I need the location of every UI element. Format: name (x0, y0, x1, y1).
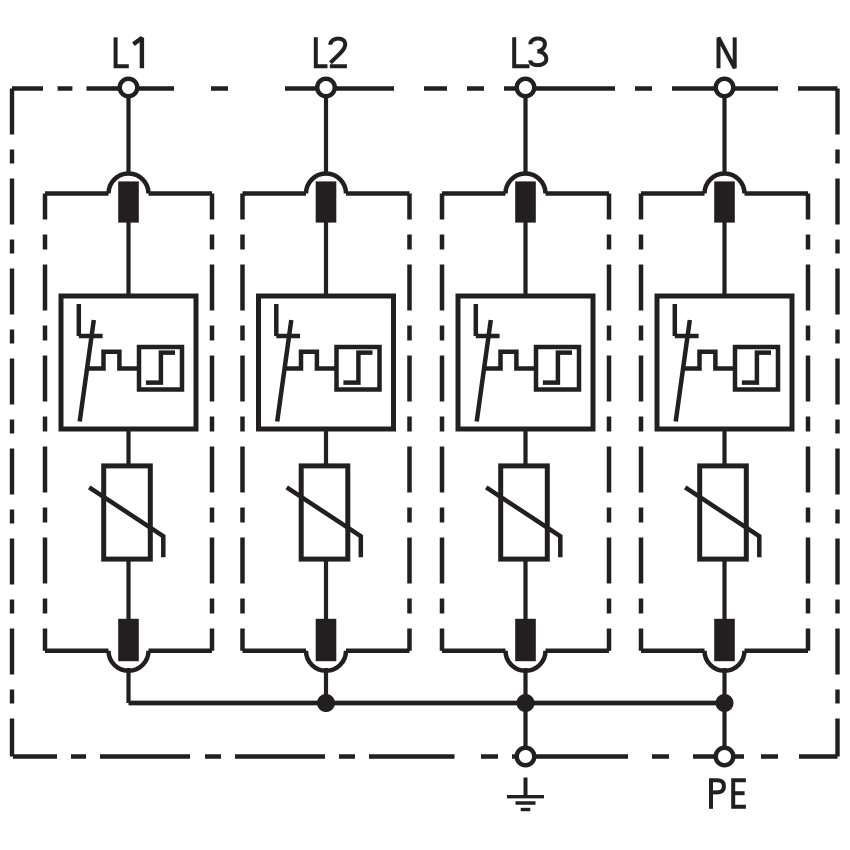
wire varistor to bottom contact (L2) (324, 558, 328, 620)
disconnector switch upper lead (L2) (274, 304, 279, 336)
wire disconnector to varistor (L1) (126, 429, 130, 467)
plug-in contact bottom (L2 branch): contact blade (316, 619, 337, 661)
plug-in contact top (L1 branch): contact blade (118, 181, 139, 222)
label L2 (316, 37, 347, 66)
enclosure bottom edge right segment (N) (745, 649, 809, 654)
wire contact to PE bus (L1) (126, 668, 130, 703)
enclosure bottom edge left segment (L3) (442, 649, 506, 654)
wire bus to ground terminal (523, 703, 527, 747)
device outer enclosure chain-dashed border: left edge (10, 89, 14, 757)
plug-in contact top (L1 branch): arc (109, 174, 149, 194)
varistor body (L1 branch) (104, 466, 151, 559)
PE terminal circle (716, 748, 734, 766)
disconnector switch upper lead (L1) (77, 304, 82, 336)
enclosure top edge right segment (L3) (546, 191, 610, 196)
module enclosure dashed right edge (L2) (407, 194, 412, 651)
plug-in contact bottom (L3 branch): arc (506, 651, 546, 671)
wire contact to disconnector (N) (722, 222, 726, 298)
thermal disconnector box (L2 branch) (259, 296, 394, 429)
plug-in contact bottom (N branch): contact blade (714, 619, 735, 661)
disconnector switch blade (N) (676, 320, 690, 422)
module enclosure dashed right edge (L1) (210, 194, 215, 651)
plug-in contact top (N branch): arc (705, 174, 745, 194)
plug-in contact top (L2 branch): contact blade (316, 181, 337, 222)
wire contact to PE bus (L3) (523, 668, 527, 703)
surge step symbol (L1) (146, 353, 175, 383)
enclosure top edge right segment (L2) (346, 191, 410, 196)
thermal disconnector box (L1 branch) (61, 296, 196, 429)
wire varistor to bottom contact (L3) (523, 558, 527, 620)
wire contact to disconnector (L2) (324, 222, 328, 298)
wire varistor to bottom contact (L1) (126, 558, 130, 620)
disconnector switch upper lead (N) (673, 304, 678, 336)
surge step symbol (L2) (343, 353, 372, 383)
thermal disconnector box (L3 branch) (458, 296, 593, 429)
varistor diagonal stroke (L3) (486, 487, 560, 557)
plug-in contact top (L2 branch): arc (306, 174, 346, 194)
thermal trip linkage square-wave (L1) (87, 352, 141, 369)
disconnector switch blade (L3) (477, 320, 491, 422)
varistor body (N branch) (700, 466, 747, 559)
disconnector switch upper lead (L3) (474, 304, 479, 336)
module enclosure dashed right edge (L3) (607, 194, 612, 651)
enclosure bottom edge right segment (L1) (149, 649, 213, 654)
disconnector switch contact tick (L2) (276, 334, 300, 339)
disconnector switch contact tick (L3) (476, 334, 500, 339)
enclosure top edge left segment (L1) (45, 191, 109, 196)
earth/ground symbol: bar 1 (507, 795, 544, 798)
device outer enclosure chain-dashed border: bottom edge (13, 754, 838, 758)
surge event box (L1) (139, 347, 182, 390)
device outer enclosure chain-dashed border: right edge (835, 89, 839, 757)
wire contact to disconnector (L3) (523, 222, 527, 298)
disconnector switch blade (L2) (277, 320, 291, 422)
wire varistor to bottom contact (N) (722, 558, 726, 620)
disconnector switch contact tick (N) (675, 334, 699, 339)
enclosure top edge left segment (L3) (442, 191, 506, 196)
terminal circle L1 (120, 79, 138, 97)
wire contact to disconnector (L1) (126, 222, 130, 298)
terminal circle L2 (317, 79, 335, 97)
wire contact to PE bus (N) (722, 668, 726, 703)
thermal trip linkage square-wave (L3) (484, 352, 538, 369)
module enclosure dashed left edge (L3) (440, 194, 445, 651)
surge event box (L2) (337, 347, 380, 390)
junction node L2/bus (317, 694, 335, 712)
surge step symbol (N) (742, 353, 771, 383)
module enclosure dashed left edge (L2) (240, 194, 245, 651)
varistor diagonal stroke (N) (685, 487, 759, 557)
terminal circle N (716, 79, 734, 97)
wire disconnector to varistor (L3) (523, 429, 527, 467)
ground terminal circle (517, 748, 535, 766)
wire L3 terminal lead (523, 97, 527, 174)
varistor diagonal stroke (L2) (287, 487, 361, 557)
earth/ground symbol: bar 2 (516, 801, 536, 804)
plug-in contact top (L3 branch): arc (506, 174, 546, 194)
plug-in contact bottom (L2 branch): arc (306, 651, 346, 671)
enclosure bottom edge right segment (L2) (346, 649, 410, 654)
wire L2 terminal lead (324, 97, 328, 174)
plug-in contact top (N branch): contact blade (714, 181, 735, 222)
enclosure top edge right segment (N) (745, 191, 809, 196)
enclosure top edge left segment (L2) (243, 191, 307, 196)
plug-in contact bottom (L3 branch): contact blade (515, 619, 536, 661)
enclosure bottom edge left segment (N) (641, 649, 705, 654)
enclosure bottom edge left segment (L1) (45, 649, 109, 654)
wire disconnector to varistor (N) (722, 429, 726, 467)
wire N terminal lead (722, 97, 726, 174)
junction node L3/bus (517, 694, 535, 712)
module enclosure dashed right edge (N) (806, 194, 811, 651)
disconnector switch contact tick (L1) (79, 334, 103, 339)
earth/ground symbol: stem (524, 778, 528, 797)
varistor body (L3 branch) (501, 466, 548, 559)
plug-in contact top (L3 branch): contact blade (515, 181, 536, 222)
varistor diagonal stroke (L1) (89, 487, 163, 557)
thermal trip linkage square-wave (N) (683, 352, 737, 369)
surge step symbol (L3) (543, 353, 572, 383)
plug-in contact bottom (L1 branch): contact blade (118, 619, 139, 661)
plug-in contact bottom (L1 branch): arc (109, 651, 149, 671)
earth/ground symbol: bar 3 (521, 808, 531, 811)
disconnector switch blade (L1) (80, 320, 94, 422)
wire bus to PE terminal (722, 703, 726, 747)
label N (719, 37, 735, 68)
enclosure top edge left segment (N) (641, 191, 705, 196)
module enclosure dashed left edge (L1) (43, 194, 48, 651)
label L1 (116, 37, 142, 68)
surge event box (N) (735, 347, 778, 390)
device outer enclosure chain-dashed border: top edge (12, 86, 838, 90)
plug-in contact bottom (N branch): arc (705, 651, 745, 671)
enclosure top edge right segment (L1) (149, 191, 213, 196)
thermal trip linkage square-wave (L2) (284, 352, 338, 369)
junction node N/bus (716, 694, 734, 712)
wire contact to PE bus (L2) (324, 668, 328, 703)
module enclosure dashed left edge (N) (639, 194, 644, 651)
wire L1 terminal lead (126, 97, 130, 174)
varistor body (L2 branch) (301, 466, 348, 559)
surge event box (L3) (536, 347, 579, 390)
PE bus wire (129, 701, 725, 706)
thermal disconnector box (N branch) (657, 296, 792, 429)
terminal circle L3 (517, 79, 535, 97)
wire disconnector to varistor (L2) (324, 429, 328, 467)
label PE (710, 778, 746, 808)
enclosure bottom edge left segment (L2) (243, 649, 307, 654)
enclosure bottom edge right segment (L3) (546, 649, 610, 654)
label L3 (514, 37, 546, 66)
